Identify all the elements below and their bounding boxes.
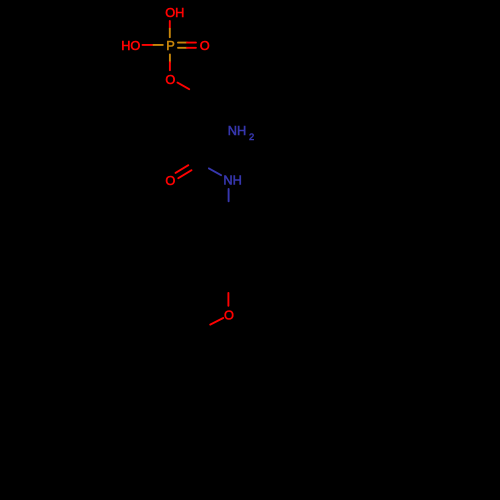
wire O(top)-P upper half (O side, red): [169, 21, 171, 29]
svg-text:NH: NH: [223, 173, 241, 188]
wire P-O(ester) lower half (O side, red): [169, 62, 171, 70]
svg-text:HO: HO: [121, 38, 140, 53]
wire O-CH2 (alkyl chain) bond red half (O side): [210, 318, 223, 325]
svg-text:O: O: [165, 173, 175, 188]
svg-text:O: O: [224, 308, 234, 323]
wire N-phenyl bond blue half (N side): [228, 189, 230, 201]
wire C-N amide bond blue half (N side): [209, 168, 221, 175]
wire HO-P right half (P side, gold): [154, 44, 163, 46]
wire phenyl C-O bond red half (O side): [227, 293, 229, 306]
svg-text:2: 2: [249, 132, 254, 142]
wire C=O amide double bond lower line (red half): [178, 170, 191, 178]
wire P-O(ester) upper half (P side, gold): [169, 55, 171, 63]
wire P=O double bond lower line (gold then red): [178, 47, 187, 49]
svg-text:O: O: [200, 38, 210, 53]
wire O(top)-P lower half (P side, gold): [169, 29, 171, 38]
svg-text:NH: NH: [228, 123, 246, 138]
svg-text:OH: OH: [165, 5, 184, 20]
svg-text:O: O: [165, 72, 175, 87]
wire O-CH2 bond red half (O side): [178, 83, 190, 90]
wire C=O amide double bond upper line (red half): [176, 165, 189, 173]
svg-text:P: P: [166, 38, 175, 53]
wire HO-P left half (O side, red): [143, 44, 154, 46]
wire P=O double bond upper line (gold then red): [178, 42, 187, 44]
